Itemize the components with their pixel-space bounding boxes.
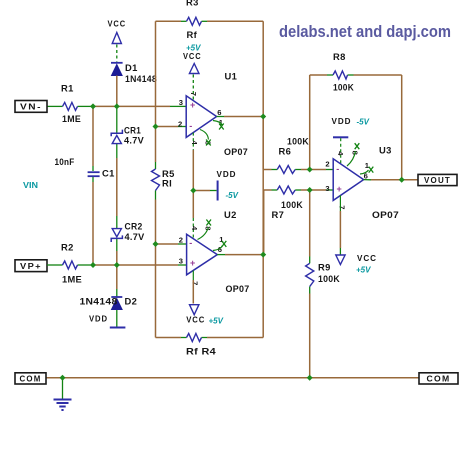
power VDD bar bottom-left — [89, 314, 125, 328]
wire VDD node to U2 pin4 — [192, 191, 194, 239]
svg-text:VDD: VDD — [89, 314, 108, 324]
port VOUT — [418, 174, 457, 185]
svg-text:R8: R8 — [333, 51, 346, 62]
svg-text:1N4148: 1N4148 — [80, 296, 118, 307]
svg-text:CR2: CR2 — [125, 221, 143, 232]
svg-text:delabs.net and dapj.com: delabs.net and dapj.com — [279, 23, 451, 41]
svg-text:1N4148: 1N4148 — [125, 73, 157, 84]
junction U1 pin2 / box left — [153, 124, 159, 130]
junction U2 pin2 / box left — [153, 241, 159, 247]
svg-text:R6: R6 — [279, 146, 292, 157]
svg-text:6: 6 — [217, 108, 221, 117]
svg-text:R1: R1 — [61, 83, 74, 94]
port COM right — [419, 373, 458, 384]
junction R7 / R9 / U3 pin3 — [307, 187, 313, 193]
wire VN- input row — [47, 105, 186, 107]
svg-text:COM: COM — [427, 375, 451, 384]
ground — [54, 378, 72, 410]
svg-text:1ME: 1ME — [62, 274, 82, 285]
svg-text:-: - — [336, 164, 339, 174]
power VCC arrow top-left — [108, 19, 127, 62]
diode D2 1N4148 — [80, 296, 138, 310]
svg-text:+5V: +5V — [356, 266, 371, 275]
wire U2 output — [217, 254, 263, 256]
wire U3 pin7 to VCC — [339, 195, 341, 254]
svg-text:VDD: VDD — [332, 116, 352, 126]
capacitor C1 — [55, 156, 115, 179]
svg-text:R2: R2 — [61, 242, 74, 253]
junction U2 output / box right — [260, 252, 266, 258]
junction R8 / VOUT — [399, 177, 405, 183]
power VCC arrow above U1 — [183, 44, 202, 101]
wire R6 branch — [263, 117, 333, 170]
svg-text:D2: D2 — [125, 296, 138, 307]
svg-text:+5V: +5V — [209, 317, 224, 326]
svg-text:VN-: VN- — [20, 103, 42, 112]
wire VP+ input row — [47, 264, 187, 266]
resistor R1 — [61, 83, 81, 125]
svg-text:+: + — [337, 184, 342, 194]
svg-text:R7: R7 — [272, 209, 285, 220]
wire U2 pin7 to VCC — [192, 271, 194, 304]
zener CR2 4.7V — [111, 221, 145, 243]
junction R9 / COM — [307, 375, 313, 381]
svg-text:C1: C1 — [102, 168, 115, 179]
wire C1 branch vertical — [92, 106, 94, 265]
op-amp U1 — [178, 71, 248, 158]
power VDD bar above U3 — [332, 116, 370, 164]
port VN- — [15, 101, 47, 113]
junction R6 / R8 / U3 pin2 — [307, 167, 313, 173]
power VCC arrow below U3 — [336, 253, 377, 275]
svg-text:U2: U2 — [224, 209, 237, 220]
resistor R8 — [333, 51, 354, 93]
junction at R2 / C1 bottom — [90, 262, 96, 268]
svg-text:VCC: VCC — [108, 19, 127, 29]
port COM left — [15, 373, 46, 384]
svg-text:U1: U1 — [225, 71, 238, 82]
svg-text:OP07: OP07 — [372, 209, 399, 220]
resistor R5 RI — [152, 168, 175, 191]
svg-text:100K: 100K — [281, 199, 303, 210]
wire R9 branch — [309, 190, 311, 378]
svg-text:+: + — [190, 258, 195, 268]
junction ground / COM — [60, 375, 66, 381]
junction at D2 chain / VP row — [114, 262, 120, 268]
svg-text:100K: 100K — [318, 273, 340, 284]
svg-text:OP07: OP07 — [224, 146, 248, 157]
svg-text:OP07: OP07 — [226, 283, 250, 294]
wire COM rail — [46, 377, 419, 379]
svg-text:VCC: VCC — [183, 51, 202, 61]
power VCC arrow below U2 — [186, 305, 223, 326]
svg-text:VDD: VDD — [217, 169, 237, 179]
wire feedback box left edge — [155, 21, 157, 337]
svg-text:3: 3 — [325, 184, 329, 193]
svg-text:R9: R9 — [318, 262, 331, 273]
resistor R4 Rf — [186, 334, 217, 357]
svg-text:+: + — [190, 100, 195, 110]
svg-text:VP+: VP+ — [20, 262, 42, 271]
power VDD bar mid — [193, 169, 238, 201]
svg-text:U3: U3 — [379, 145, 392, 156]
svg-text:4.7V: 4.7V — [124, 135, 144, 146]
svg-text:3: 3 — [179, 98, 183, 107]
diode D1 1N4148 — [111, 62, 157, 84]
port VP+ — [15, 260, 47, 272]
svg-text:-5V: -5V — [226, 191, 239, 200]
wire diode chain vertical — [116, 76, 118, 327]
svg-text:R3: R3 — [186, 0, 199, 8]
svg-text:10nF: 10nF — [55, 156, 75, 167]
svg-text:VCC: VCC — [186, 315, 205, 325]
svg-text:VIN: VIN — [23, 180, 38, 190]
wire feedback box right edge — [262, 21, 264, 337]
wire U3 output to VOUT — [364, 179, 418, 181]
svg-text:VOUT: VOUT — [424, 176, 451, 185]
wire feedback box top — [156, 20, 264, 22]
resistor R2 — [61, 242, 82, 285]
zener CR1 4.7V — [111, 125, 144, 146]
resistor R9 — [306, 262, 340, 287]
svg-text:7: 7 — [189, 92, 198, 96]
svg-text:-5V: -5V — [357, 118, 370, 127]
svg-text:100K: 100K — [333, 82, 354, 93]
wire U1 pin4 to VDD node — [192, 133, 194, 191]
svg-text:2: 2 — [178, 120, 182, 129]
svg-text:4.7V: 4.7V — [125, 231, 145, 242]
svg-text:-: - — [189, 238, 192, 248]
wire U1 pin2 row — [156, 126, 187, 128]
svg-text:7: 7 — [191, 281, 200, 285]
svg-text:VCC: VCC — [357, 253, 377, 263]
svg-text:RI: RI — [162, 178, 172, 189]
wire U1 output — [217, 116, 264, 118]
resistor R3 Rf — [186, 0, 202, 40]
svg-text:2: 2 — [325, 160, 329, 169]
svg-text:1ME: 1ME — [62, 113, 81, 124]
resistor R6 — [277, 136, 309, 174]
junction at D1 chain / VN row — [114, 103, 120, 109]
svg-text:COM: COM — [20, 375, 42, 384]
svg-text:Rf R4: Rf R4 — [186, 346, 217, 357]
junction at R1 / C1 — [90, 103, 96, 109]
svg-text:D1: D1 — [125, 62, 138, 73]
svg-text:2: 2 — [179, 236, 183, 245]
svg-text:-: - — [189, 121, 192, 131]
resistor R7 — [272, 186, 304, 220]
junction U1 output / box right — [260, 114, 266, 120]
junction VDD mid node — [190, 188, 196, 194]
svg-text:3: 3 — [179, 257, 183, 266]
svg-text:7: 7 — [337, 205, 346, 209]
op-amp U3 — [325, 143, 399, 220]
wire R8 feedback loop — [310, 75, 402, 180]
wire feedback box bottom — [156, 337, 264, 339]
wire R7 branch — [264, 190, 333, 255]
svg-text:Rf: Rf — [187, 29, 198, 40]
op-amp U2 — [179, 209, 250, 294]
wire U2 pin2 row — [156, 243, 187, 245]
